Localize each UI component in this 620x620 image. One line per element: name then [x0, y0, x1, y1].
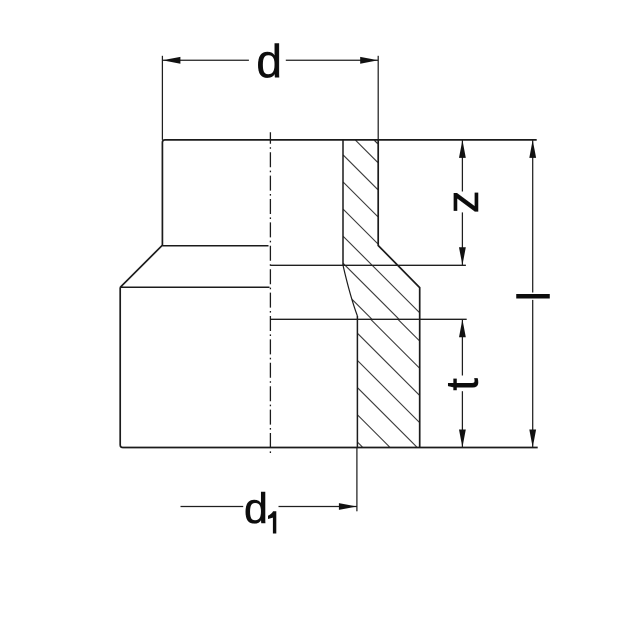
label z (rotated)	[437, 191, 488, 214]
label l (rotated)	[508, 291, 559, 301]
edge: inner taper between bores	[343, 265, 357, 316]
svg-text:d: d	[256, 35, 282, 87]
dimension line l, upper segment	[532, 140, 534, 293]
outline: left edge of lower socket and bottom edge (extends right as extension for l)	[120, 287, 538, 447]
arrowhead d right	[360, 57, 378, 64]
svg-text:l: l	[508, 291, 559, 301]
svg-text:d: d	[244, 485, 268, 533]
edge: lower socket depth shoulder (also extension line for t)	[270, 318, 466, 320]
dimension line d1, left segment	[181, 506, 244, 508]
arrowhead t bottom	[459, 430, 466, 448]
arrowhead l bottom	[529, 430, 536, 448]
arrowhead l top	[529, 140, 536, 158]
svg-text:t: t	[436, 378, 487, 391]
edge: upper shoulder line, cone to small cylinder (left half)	[162, 245, 268, 247]
label d1, subscript 1	[268, 511, 276, 533]
centerline (dash-dot axis)	[269, 132, 271, 456]
dimension line d, right segment	[286, 59, 378, 61]
dimension line d1, right segment	[279, 506, 357, 508]
dimension line z, upper segment	[461, 140, 463, 192]
extension line d, left	[161, 56, 163, 140]
corner chamfer mark at socket mouth top-right	[374, 140, 378, 144]
arrowhead t top	[459, 319, 466, 337]
dimension line d, left segment	[162, 59, 249, 61]
dimension line l, lower segment	[532, 300, 534, 448]
outline: left edge of upper socket and top edge (extends right as extension for l)	[162, 140, 536, 245]
arrowhead d1 right	[339, 503, 357, 510]
arrowhead d left	[162, 57, 180, 64]
edge: bore wall of lower socket	[356, 316, 358, 448]
edge: bore wall of upper socket	[342, 140, 344, 265]
arrowhead z bottom	[459, 247, 466, 265]
extension line d1 (lower bore)	[356, 448, 358, 512]
section hatching, lower socket wall	[115, 200, 620, 600]
section hatching, upper socket wall and cone	[153, 100, 620, 500]
extension line d, right	[377, 56, 379, 140]
dimension line t, upper segment	[461, 319, 463, 375]
dimension line z, lower segment	[461, 212, 463, 265]
outline: left cone diagonal	[120, 245, 162, 287]
edge: lower shoulder line, cone to large cylinder (left half)	[120, 286, 269, 288]
edge: upper socket depth shoulder (also extension line for z)	[270, 264, 466, 266]
dimension line t, lower segment	[461, 391, 463, 447]
svg-text:z: z	[437, 191, 488, 214]
arrowhead z top	[459, 140, 466, 158]
label t (rotated)	[436, 378, 487, 391]
outline: right outer edge with cone diagonal	[378, 140, 420, 448]
